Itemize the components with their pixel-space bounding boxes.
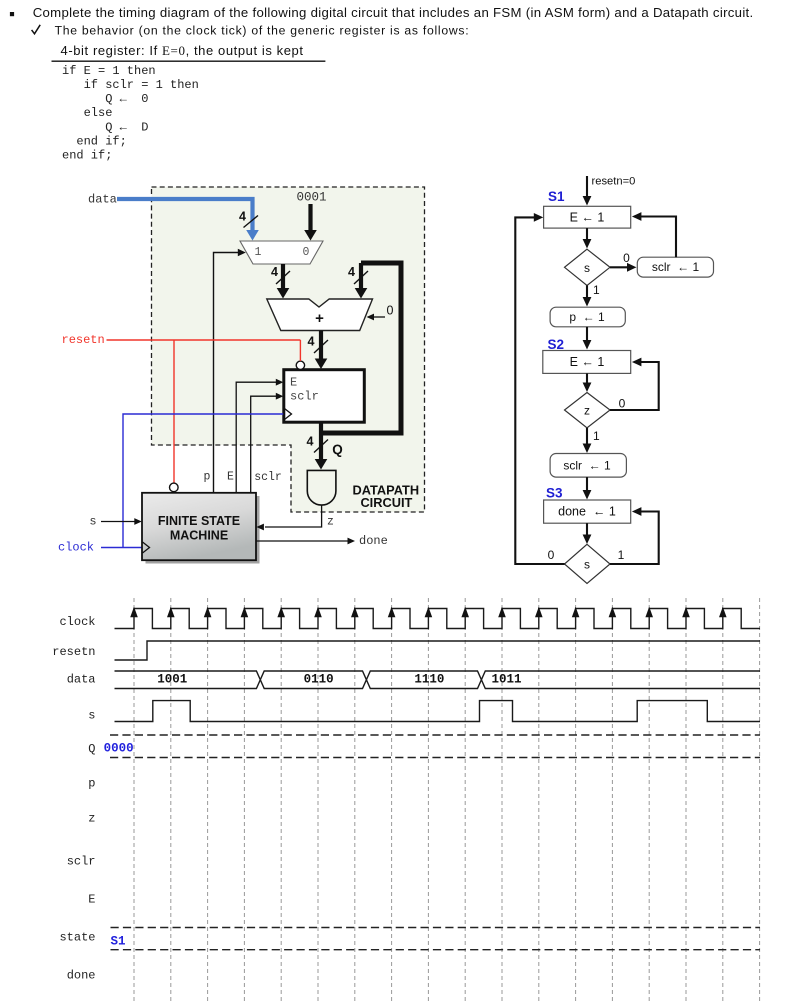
svg-text:done ← 1: done ← 1 — [558, 505, 616, 519]
state S1 box — [544, 206, 631, 228]
svg-text:4: 4 — [348, 265, 355, 279]
svg-text:s: s — [89, 515, 96, 529]
svg-text:0: 0 — [387, 304, 394, 318]
svg-text:0: 0 — [623, 251, 630, 265]
svg-text:1: 1 — [593, 283, 600, 297]
svg-text:+: + — [315, 310, 324, 327]
svg-text:z: z — [584, 404, 590, 418]
svg-text:0: 0 — [303, 246, 310, 259]
svg-text:MACHINE: MACHINE — [170, 528, 228, 542]
svg-text:clock: clock — [59, 615, 95, 629]
checkmark — [32, 25, 41, 34]
resetn waveform — [115, 641, 761, 660]
svg-text:resetn: resetn — [62, 333, 105, 347]
svg-text:Q ← 0: Q ← 0 — [105, 92, 148, 106]
clock rising edge arrows — [130, 607, 726, 618]
p conditional box — [550, 307, 625, 327]
svg-text:E ← 1: E ← 1 — [570, 355, 605, 369]
data bus waveform — [115, 671, 761, 689]
register U3 — [284, 370, 365, 423]
svg-text:sclr ← 1: sclr ← 1 — [563, 458, 611, 472]
loop sclr box to S1 — [638, 217, 676, 258]
feedback bus (Q to adder) — [321, 263, 401, 433]
resetn wire to FSM bubble — [173, 340, 175, 483]
svg-text:FINITE STATE: FINITE STATE — [158, 514, 240, 528]
svg-text:E: E — [227, 471, 234, 484]
svg-text:1: 1 — [593, 429, 600, 443]
z wire — [265, 505, 322, 527]
data input bus (blue) — [117, 199, 253, 232]
s decision diamond — [565, 249, 611, 285]
svg-text:Q ← D: Q ← D — [105, 120, 148, 134]
FSM reset bubble — [170, 483, 179, 492]
clock wire to register — [123, 414, 283, 548]
svg-text:0001: 0001 — [296, 191, 326, 205]
loop s=0 to S1 (left) — [515, 217, 564, 564]
arrow p box to S2 — [586, 327, 588, 344]
svg-text:4: 4 — [239, 210, 246, 224]
loop z=0 to S2 — [610, 362, 659, 410]
adder right input bus — [359, 263, 363, 290]
arrow S2 to z decision — [586, 373, 588, 387]
register behavior code — [62, 64, 199, 163]
mux select wire (from p) — [214, 253, 239, 493]
svg-text:S1: S1 — [111, 934, 126, 948]
svg-text:done: done — [359, 534, 388, 548]
data bus values — [157, 673, 521, 687]
mux U1 — [240, 241, 323, 264]
svg-text:4: 4 — [307, 435, 314, 449]
svg-text:sclr ← 1: sclr ← 1 — [652, 260, 700, 274]
svg-text:s: s — [88, 708, 95, 722]
sum bus width-4 slash — [314, 340, 328, 353]
E wire — [236, 382, 276, 493]
svg-text:The behavior (on the clock tic: The behavior (on the clock tick) of the … — [55, 23, 469, 37]
ASM entry arrow — [586, 176, 588, 200]
datapath boundary (dashed, shaded) — [152, 187, 425, 512]
timing row labels — [52, 615, 95, 983]
arrow s=0 to sclr box — [610, 266, 631, 268]
sclr conditional box (S2) — [550, 454, 626, 478]
Q bus width-4 slash — [314, 440, 328, 453]
z decision diamond — [565, 393, 611, 428]
svg-text:S1: S1 — [548, 189, 565, 204]
svg-text:1011: 1011 — [491, 673, 521, 687]
arrow s=1 to p box — [586, 286, 588, 302]
FSM clock triangle — [143, 542, 150, 553]
FSM box U4 — [142, 493, 256, 560]
svg-text:1: 1 — [255, 246, 262, 259]
s input wire — [101, 521, 135, 523]
s decision 2 diamond — [565, 544, 611, 583]
state rails — [111, 928, 761, 950]
Q output bus — [319, 422, 323, 461]
svg-text:if sclr = 1 then: if sclr = 1 then — [84, 78, 199, 92]
svg-text:p: p — [88, 777, 95, 791]
done output wire — [256, 540, 348, 542]
svg-text:CIRCUIT: CIRCUIT — [360, 495, 412, 510]
svg-text:Q: Q — [88, 742, 95, 756]
svg-text:E: E — [88, 892, 95, 906]
svg-text:resetn: resetn — [52, 645, 95, 659]
svg-text:4: 4 — [308, 335, 315, 349]
mux output bus — [281, 264, 285, 290]
AND gate (zero detector) — [307, 470, 336, 505]
svg-text:s: s — [584, 261, 590, 275]
data bus width-4 slash — [244, 216, 259, 228]
svg-text:S2: S2 — [548, 337, 565, 352]
svg-text:sclr: sclr — [290, 390, 319, 404]
title underline — [52, 60, 326, 62]
resetn wire to register bubble — [299, 340, 301, 361]
svg-text:1110: 1110 — [414, 673, 444, 687]
s waveform — [115, 701, 761, 722]
mux output width-4 slash — [276, 271, 290, 284]
svg-text:1001: 1001 — [157, 673, 187, 687]
arrow z=1 to sclr box — [586, 428, 588, 448]
svg-text:else: else — [84, 106, 113, 120]
svg-text:state: state — [59, 931, 95, 945]
sclr conditional box (S1) — [637, 257, 713, 277]
svg-text:sclr: sclr — [254, 471, 282, 484]
timing grid verticals — [134, 598, 760, 1002]
register reset bubble — [296, 361, 304, 369]
svg-text:0110: 0110 — [304, 673, 334, 687]
svg-text:0: 0 — [619, 397, 626, 411]
svg-text:1: 1 — [618, 548, 625, 562]
clock wire to FSM — [101, 547, 142, 549]
carry-in wire — [372, 316, 385, 318]
svg-text:Q: Q — [332, 442, 343, 457]
svg-text:if E = 1 then: if E = 1 then — [62, 64, 156, 78]
sum bus (adder to register) — [319, 331, 323, 361]
clock waveform — [115, 609, 761, 629]
arrow S3 to s decision 2 — [586, 523, 588, 539]
svg-text:4-bit register: If E=0, the ou: 4-bit register: If E=0, the output is ke… — [61, 43, 304, 58]
svg-text:data: data — [88, 193, 117, 207]
svg-text:p ← 1: p ← 1 — [569, 310, 605, 324]
constant 0001 bus — [308, 204, 312, 232]
svg-text:end if;: end if; — [76, 135, 126, 149]
svg-text:4: 4 — [271, 265, 278, 279]
register clock triangle — [285, 409, 292, 420]
svg-text:sclr: sclr — [67, 855, 96, 869]
adder right width-4 slash — [354, 271, 368, 284]
arrow sclr box to S3 — [586, 477, 588, 494]
svg-text:done: done — [67, 968, 96, 982]
bullet square — [10, 12, 14, 16]
sclr wire — [251, 396, 277, 493]
svg-text:0000: 0000 — [104, 742, 134, 756]
resetn wire horizontal — [107, 339, 301, 341]
svg-text:data: data — [67, 672, 96, 686]
svg-text:p: p — [204, 471, 211, 484]
FSM box shadow — [146, 496, 260, 564]
svg-text:end if;: end if; — [62, 149, 112, 163]
arrow S1 to s decision — [586, 228, 588, 243]
svg-text:z: z — [88, 812, 95, 826]
svg-text:0: 0 — [548, 548, 555, 562]
svg-text:s: s — [584, 558, 590, 572]
svg-text:Complete the timing diagram of: Complete the timing diagram of the follo… — [33, 5, 754, 20]
state S2 box — [543, 351, 631, 374]
adder U2 — [267, 299, 373, 331]
svg-text:E ← 1: E ← 1 — [570, 210, 605, 224]
state S3 box — [544, 500, 631, 523]
svg-text:resetn=0: resetn=0 — [592, 176, 636, 188]
svg-text:clock: clock — [58, 541, 94, 555]
svg-text:E: E — [290, 376, 297, 390]
svg-text:S3: S3 — [546, 485, 563, 500]
loop s=1 to S3 (right) — [610, 512, 659, 565]
Q bus rails (unknown) — [110, 735, 760, 758]
svg-text:z: z — [327, 516, 334, 529]
